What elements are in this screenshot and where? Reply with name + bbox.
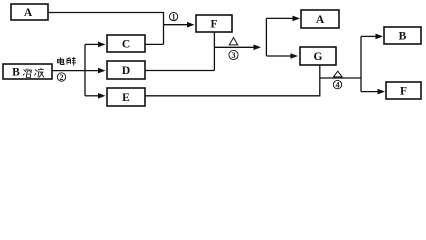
wire E output up to G bottom [145, 65, 319, 96]
box B product [384, 27, 421, 44]
svg-text:D: D [122, 65, 130, 77]
box B-solution [3, 64, 52, 79]
box F1 product F [196, 15, 232, 32]
junction wire 4 branch vertical [360, 36, 362, 91]
box C [107, 35, 145, 52]
box E [107, 88, 145, 106]
label circled 3 [229, 50, 238, 59]
arrow into G [266, 55, 291, 57]
heat triangle reaction 3 [229, 38, 237, 45]
svg-text:F: F [400, 85, 407, 97]
svg-text:3: 3 [232, 51, 236, 60]
wire C output to junction 1 [145, 43, 163, 45]
branch wire 2 vertical [84, 44, 86, 95]
arrow into E [85, 95, 99, 97]
svg-text:A: A [24, 7, 33, 19]
svg-text:C: C [122, 38, 130, 50]
arrow into B [361, 35, 376, 37]
heat triangle reaction 4 [334, 71, 343, 77]
junction wire 3 branch vertical [265, 18, 267, 56]
arrow into F2 [361, 91, 378, 93]
label circled 2 [57, 73, 65, 82]
svg-text:2: 2 [60, 73, 64, 82]
box A2 product A [301, 10, 339, 28]
wire D output to reaction 3 [145, 70, 214, 72]
reaction arrow 3 [214, 46, 254, 48]
svg-text:G: G [314, 51, 323, 63]
arrow 1 into F [164, 24, 189, 26]
glyph rong (dissolve) [23, 69, 32, 78]
svg-text:F: F [210, 19, 217, 31]
wire A1 output to junction 1 [48, 13, 164, 45]
arrow into C [85, 43, 99, 45]
label B-solution text [12, 67, 44, 79]
svg-text:4: 4 [336, 80, 340, 89]
label dian-jie (electrolysis) [58, 57, 77, 66]
reaction wire 4 [320, 77, 361, 79]
arrow into A2 [266, 17, 293, 19]
svg-text:B: B [399, 30, 407, 42]
glyph ye (liquid) [35, 68, 45, 78]
box A1 reactant A [11, 4, 48, 20]
box G [300, 47, 336, 65]
box F2 product F [386, 82, 421, 99]
svg-text:1: 1 [172, 12, 176, 21]
box D [107, 61, 145, 79]
svg-text:B: B [12, 67, 20, 79]
wire electrolysis 2 into D [52, 70, 99, 72]
svg-text:A: A [316, 14, 325, 26]
wire F bottom down to reaction 3 [213, 32, 215, 71]
label circled 1 [170, 12, 178, 21]
label circled 4 [333, 80, 341, 89]
svg-text:E: E [122, 92, 130, 104]
